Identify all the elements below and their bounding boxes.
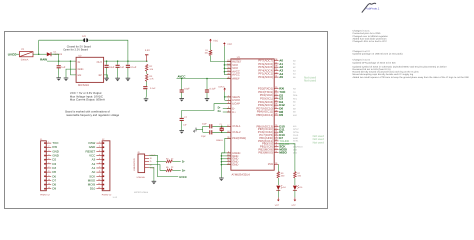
svg-text:31: 31 bbox=[275, 130, 277, 133]
svg-text:19: 19 bbox=[275, 93, 277, 96]
svg-text:5: 5 bbox=[99, 157, 100, 160]
ground for divider bbox=[144, 97, 149, 102]
ground for C11 bbox=[205, 97, 210, 102]
svg-text:21: 21 bbox=[275, 90, 277, 93]
solder jumper SJ1 bbox=[82, 35, 88, 42]
svg-text:TX: TX bbox=[293, 91, 296, 94]
svg-text:7: 7 bbox=[48, 165, 49, 168]
connector J2 net labels bbox=[86, 141, 96, 191]
pin comments group1 bbox=[293, 59, 296, 79]
svg-text:D+: D+ bbox=[182, 169, 186, 172]
svg-text:PINHD-12: PINHD-12 bbox=[40, 193, 50, 196]
junction at fuse/diode node bbox=[38, 53, 40, 55]
svg-text:4: 4 bbox=[99, 153, 100, 156]
svg-text:D4: D4 bbox=[283, 186, 287, 189]
svg-text:37: 37 bbox=[275, 61, 277, 64]
wire USB D- to R4 bbox=[157, 160, 166, 162]
capacitor C8 22pF bbox=[202, 123, 212, 129]
wire IC ground bus bbox=[221, 153, 231, 176]
svg-text:28: 28 bbox=[275, 109, 277, 112]
ground for IC bbox=[219, 176, 224, 181]
connector J1 net labels bbox=[52, 141, 59, 191]
svg-text:A5: A5 bbox=[293, 76, 296, 79]
svg-text:A6: A6 bbox=[293, 101, 296, 104]
svg-text:2: 2 bbox=[48, 145, 49, 148]
svg-text:1X12: 1X12 bbox=[113, 196, 117, 199]
fuse F1 bbox=[19, 48, 33, 62]
svg-text:Changes in v2.1:: Changes in v2.1: bbox=[353, 30, 371, 33]
svg-text:XTAL2: XTAL2 bbox=[232, 130, 241, 134]
svg-text:44: 44 bbox=[227, 72, 229, 75]
op-amp U1 ATMEGA32U4 body bbox=[231, 56, 274, 176]
svg-text:Updated package on USB micro B: Updated package on USB micro B (2 new pa… bbox=[353, 53, 403, 56]
svg-text:D+: D+ bbox=[232, 110, 236, 114]
svg-text:AREF: AREF bbox=[232, 76, 240, 80]
svg-text:42: 42 bbox=[227, 76, 229, 79]
svg-text:22: 22 bbox=[275, 162, 277, 165]
svg-text:A4: A4 bbox=[293, 73, 296, 76]
svg-text:A5: A5 bbox=[279, 75, 283, 79]
svg-text:A1: A1 bbox=[293, 63, 296, 66]
wire UVCC to fuse bbox=[16, 53, 20, 55]
svg-text:40: 40 bbox=[275, 71, 277, 74]
svg-text:11: 11 bbox=[48, 182, 50, 185]
svg-text:3: 3 bbox=[228, 106, 229, 109]
svg-text:17: 17 bbox=[227, 124, 229, 127]
svg-text:10: 10 bbox=[48, 178, 50, 181]
svg-text:OC1C: OC1C bbox=[293, 128, 299, 131]
svg-text:33: 33 bbox=[227, 136, 229, 139]
svg-text:VCC: VCC bbox=[291, 204, 296, 207]
wire USB GND bbox=[149, 168, 154, 180]
svg-text:PB3(MISO): PB3(MISO) bbox=[258, 150, 273, 154]
svg-text:Added fuse and diode protectio: Added fuse and diode protection bbox=[353, 37, 388, 40]
svg-text:Added two small squares of fil: Added two small squares of fill zone to … bbox=[353, 76, 470, 79]
wire TXLED branch bbox=[277, 164, 279, 171]
wire crystal left bus bbox=[203, 126, 210, 132]
svg-text:Moved decoupling caps directly: Moved decoupling caps directly beside ea… bbox=[353, 73, 414, 76]
svg-text:ATMEGA32U4: ATMEGA32U4 bbox=[232, 172, 251, 176]
svg-text:PINHD-12: PINHD-12 bbox=[102, 193, 112, 196]
wire LED to VCC 2 bbox=[294, 190, 296, 197]
svg-text:22: 22 bbox=[171, 157, 174, 160]
svg-text:MICRO-USB-B: MICRO-USB-B bbox=[134, 191, 149, 194]
svg-text:10: 10 bbox=[275, 147, 277, 150]
IC left pin stubs bbox=[227, 59, 231, 165]
svg-text:1: 1 bbox=[99, 141, 100, 144]
svg-text:29: 29 bbox=[275, 113, 277, 116]
svg-text:AIN0: AIN0 bbox=[293, 137, 298, 140]
svg-text:16: 16 bbox=[227, 130, 229, 133]
svg-text:15: 15 bbox=[227, 153, 229, 156]
wire D+ bbox=[223, 111, 231, 113]
connector J1 body bbox=[40, 138, 51, 196]
svg-text:D+: D+ bbox=[150, 163, 154, 166]
svg-text:C7: C7 bbox=[184, 116, 188, 119]
svg-text:4: 4 bbox=[228, 110, 229, 113]
svg-text:34: 34 bbox=[227, 66, 229, 69]
svg-text:0.1uF: 0.1uF bbox=[150, 87, 156, 90]
svg-text:D-: D- bbox=[150, 160, 153, 163]
svg-text:UVCC: UVCC bbox=[8, 53, 17, 57]
svg-text:Y1: Y1 bbox=[219, 123, 222, 126]
svg-text:26: 26 bbox=[275, 103, 277, 106]
connector J1 pin stubs bbox=[44, 141, 51, 190]
svg-text:Changed over to 500mA regulato: Changed over to 500mA regulator bbox=[353, 35, 389, 38]
wire BP pin bbox=[104, 75, 108, 78]
svg-text:A3: A3 bbox=[293, 69, 296, 72]
wire VCC output rail bbox=[104, 60, 147, 62]
capacitor C9 22pF bbox=[201, 130, 212, 138]
svg-text:GND: GND bbox=[232, 163, 238, 167]
wire R6 to LED bbox=[277, 178, 279, 185]
svg-text:27: 27 bbox=[275, 106, 277, 109]
capacitor C2 input 1uF bbox=[57, 61, 66, 76]
svg-text:SJ1: SJ1 bbox=[82, 35, 87, 38]
svg-text:A8: A8 bbox=[293, 107, 296, 110]
svg-text:10k: 10k bbox=[149, 68, 153, 71]
wire reset to IC bbox=[211, 56, 231, 62]
crystal Y1 16MHz bbox=[216, 123, 224, 142]
svg-text:A7: A7 bbox=[293, 104, 296, 107]
wire R7 to LED bbox=[294, 178, 296, 185]
svg-text:R3: R3 bbox=[149, 75, 153, 78]
svg-text:22pF: 22pF bbox=[202, 123, 208, 126]
connector J2 pin stubs bbox=[96, 141, 104, 190]
svg-text:9: 9 bbox=[99, 174, 100, 177]
svg-text:11: 11 bbox=[98, 182, 100, 185]
wire D- bbox=[223, 108, 231, 110]
svg-text:6: 6 bbox=[99, 161, 100, 164]
svg-text:R2: R2 bbox=[149, 65, 153, 68]
svg-text:R5: R5 bbox=[166, 166, 170, 169]
logo swoosh bbox=[362, 3, 376, 12]
LED D5 RX bbox=[293, 185, 303, 190]
IC left pin names group2 bbox=[232, 95, 240, 114]
svg-text:0.1uF: 0.1uF bbox=[130, 66, 136, 69]
svg-text:RX: RX bbox=[293, 88, 297, 91]
ground for C4 bbox=[115, 76, 120, 81]
svg-text:10uF: 10uF bbox=[109, 66, 115, 69]
wire RAW rail into regulator bbox=[47, 60, 76, 62]
svg-text:SDA: SDA bbox=[293, 94, 298, 97]
svg-text:A11: A11 bbox=[293, 125, 297, 128]
wire jumper rail top bbox=[39, 39, 83, 41]
svg-text:VCC: VCC bbox=[213, 39, 218, 42]
svg-text:2: 2 bbox=[228, 98, 229, 101]
svg-text:3: 3 bbox=[48, 149, 49, 152]
svg-text:30: 30 bbox=[275, 124, 277, 127]
svg-text:4.7k: 4.7k bbox=[149, 78, 154, 81]
svg-text:EN: EN bbox=[78, 74, 82, 77]
svg-text:D+: D+ bbox=[218, 110, 222, 113]
svg-text:14: 14 bbox=[227, 62, 229, 65]
svg-text:38: 38 bbox=[275, 65, 277, 68]
svg-text:20: 20 bbox=[275, 86, 277, 89]
svg-text:PD5: PD5 bbox=[268, 162, 274, 166]
power flag VCC down TX bbox=[275, 197, 280, 207]
svg-text:3.3V: 3.3V bbox=[145, 49, 150, 52]
svg-text:41: 41 bbox=[275, 75, 277, 78]
junction rail C3 bbox=[106, 60, 108, 62]
svg-text:24: 24 bbox=[227, 69, 229, 72]
pin comments group3 bbox=[293, 125, 303, 154]
junction rail C4 bbox=[117, 60, 119, 62]
svg-text:1: 1 bbox=[48, 141, 49, 144]
resistor R7 330 bbox=[294, 172, 302, 179]
svg-text:10uF: 10uF bbox=[184, 88, 190, 91]
wire USB VBUS to UVCC bbox=[149, 155, 178, 176]
svg-text:8: 8 bbox=[99, 170, 100, 173]
svg-text:35: 35 bbox=[227, 159, 229, 162]
svg-text:6: 6 bbox=[228, 101, 229, 104]
svg-text:PB5(ADC12): PB5(ADC12) bbox=[256, 113, 273, 117]
junction rail jumper bbox=[127, 60, 128, 62]
svg-text:D14: D14 bbox=[293, 151, 298, 154]
wire jumper rail riser bbox=[38, 40, 40, 54]
svg-text:PF0(ADC0): PF0(ADC0) bbox=[258, 75, 273, 79]
svg-text:7: 7 bbox=[99, 165, 100, 168]
svg-text:43: 43 bbox=[227, 162, 229, 165]
wire XTAL2 bbox=[212, 131, 231, 133]
svg-text:UVCC: UVCC bbox=[218, 85, 225, 88]
svg-text:BP: BP bbox=[99, 74, 103, 77]
svg-text:USB-MB: USB-MB bbox=[137, 176, 146, 179]
svg-text:12: 12 bbox=[48, 186, 50, 189]
IC right pin stubs group2 bbox=[274, 86, 278, 115]
svg-text:12: 12 bbox=[98, 186, 100, 189]
svg-text:MISO: MISO bbox=[279, 151, 287, 155]
svg-text:OUT: OUT bbox=[97, 61, 103, 64]
power flag VCC for reset pullup bbox=[209, 39, 218, 43]
power flag VCC feed bbox=[223, 42, 232, 46]
svg-text:330: 330 bbox=[281, 174, 285, 177]
regulator U2 MIC5219 bbox=[76, 54, 104, 87]
svg-text:VBUS: VBUS bbox=[150, 154, 156, 157]
IC right pin names group2 bbox=[256, 87, 273, 117]
capacitor C3 10uF bbox=[105, 61, 115, 76]
note not used group3 bbox=[313, 134, 325, 145]
svg-text:6: 6 bbox=[48, 161, 49, 164]
wire EN tie to input rail bbox=[71, 61, 77, 75]
wire VBUS/UVCC bbox=[224, 92, 231, 101]
connector J3 USB micro bbox=[133, 151, 145, 179]
svg-text:MBR120: MBR120 bbox=[54, 53, 63, 56]
svg-text:RAW: RAW bbox=[40, 58, 47, 62]
svg-text:22: 22 bbox=[171, 166, 174, 169]
svg-text:10k: 10k bbox=[205, 52, 209, 55]
svg-text:IN: IN bbox=[78, 61, 81, 64]
IC right pin names group1 bbox=[258, 59, 273, 80]
ground for C7 bbox=[179, 129, 184, 134]
junction input cap node bbox=[58, 60, 60, 62]
svg-text:330: 330 bbox=[297, 174, 301, 177]
svg-text:VCC: VCC bbox=[227, 43, 232, 46]
svg-text:A0: A0 bbox=[293, 59, 296, 62]
svg-text:25: 25 bbox=[275, 99, 277, 102]
svg-text:XTAL1: XTAL1 bbox=[232, 124, 241, 128]
svg-text:Not used: Not used bbox=[313, 140, 325, 144]
resistor R5 22 bbox=[166, 166, 174, 171]
ground for C5 bbox=[126, 76, 131, 81]
svg-text:Not used: Not used bbox=[304, 79, 316, 83]
ground for C3 bbox=[104, 76, 109, 81]
svg-text:F1: F1 bbox=[22, 48, 25, 51]
svg-text:5: 5 bbox=[48, 157, 49, 160]
note regulator limits bbox=[70, 91, 105, 102]
wire XTAL1 bbox=[212, 125, 231, 127]
svg-text:12: 12 bbox=[275, 127, 277, 130]
svg-text:Changes in v2.2:: Changes in v2.2: bbox=[353, 50, 371, 53]
svg-text:16MHz: 16MHz bbox=[216, 139, 223, 142]
ground for crystal bbox=[193, 128, 203, 133]
svg-text:GND: GND bbox=[78, 68, 84, 71]
svg-text:1uF: 1uF bbox=[183, 124, 187, 127]
svg-text:Changed LEDs to be tied to VCC: Changed LEDs to be tied to VCC bbox=[353, 40, 388, 43]
svg-text:22: 22 bbox=[275, 138, 277, 141]
svg-text:36: 36 bbox=[275, 58, 277, 61]
net labels group3 bbox=[279, 124, 290, 154]
svg-text:23: 23 bbox=[227, 156, 229, 159]
svg-text:7: 7 bbox=[228, 94, 229, 97]
svg-text:Connected pins 4x to GND: Connected pins 4x to GND bbox=[353, 32, 381, 35]
svg-text:8: 8 bbox=[48, 170, 49, 173]
svg-text:VCC: VCC bbox=[275, 204, 280, 207]
power flag UVCC bbox=[218, 85, 226, 91]
svg-text:D15/SCLK: D15/SCLK bbox=[293, 146, 303, 149]
svg-text:A2: A2 bbox=[293, 66, 296, 69]
resistor R3 divider bottom bbox=[145, 71, 154, 81]
wire R4 to D- label bbox=[173, 160, 181, 162]
svg-text:500mA: 500mA bbox=[21, 59, 29, 62]
IC right pin stubs group1 bbox=[274, 58, 278, 78]
wire R5 to D+ label bbox=[173, 169, 181, 171]
net labels group1 bbox=[279, 59, 283, 80]
wire UCAP bbox=[182, 104, 231, 118]
wire USB D+ to R5 bbox=[149, 165, 166, 171]
svg-text:Open for 3.3V Board: Open for 3.3V Board bbox=[63, 49, 88, 52]
wire LED to VCC bbox=[277, 190, 279, 197]
capacitor C10 10uF bbox=[180, 79, 191, 97]
svg-text:18: 18 bbox=[275, 96, 277, 99]
svg-text:A9: A9 bbox=[293, 111, 296, 114]
diode D1 MBR120 bbox=[47, 50, 63, 56]
svg-text:1uF: 1uF bbox=[61, 66, 66, 69]
svg-text:3: 3 bbox=[99, 149, 100, 152]
junction rail divider bbox=[146, 60, 148, 62]
wire VCC feed bus bbox=[224, 46, 231, 74]
IC left pin names group4 bbox=[232, 151, 240, 167]
changelog notes bbox=[353, 30, 470, 79]
svg-text:8: 8 bbox=[276, 141, 277, 144]
pin comments group2 bbox=[293, 88, 298, 117]
svg-text:XCK1: XCK1 bbox=[293, 140, 299, 143]
svg-text:J3: J3 bbox=[137, 151, 140, 154]
IC left pin names group1 bbox=[232, 59, 242, 80]
capacitor C6 divider bbox=[143, 81, 156, 96]
svg-text:Changes in v2.3:: Changes in v2.3: bbox=[353, 59, 371, 62]
power flag VCC down RX bbox=[291, 197, 296, 207]
svg-text:ID: ID bbox=[150, 157, 153, 160]
IC pin PD5 TXLED bbox=[268, 162, 279, 166]
svg-text:D10: D10 bbox=[90, 187, 96, 191]
svg-text:D9: D9 bbox=[279, 113, 283, 117]
resistor R1 10k reset pullup bbox=[205, 43, 212, 56]
wire fuse to junction bbox=[33, 53, 47, 55]
resistor R2 divider top bbox=[145, 64, 153, 71]
svg-text:10: 10 bbox=[98, 178, 100, 181]
svg-text:SCL: SCL bbox=[293, 97, 298, 100]
IC right pin stubs group3 bbox=[274, 124, 278, 153]
net labels group2 bbox=[279, 87, 286, 117]
svg-text:D5: D5 bbox=[300, 186, 304, 189]
svg-text:OC3A: OC3A bbox=[293, 131, 299, 134]
USB pin stubs bbox=[145, 154, 156, 169]
svg-text:13: 13 bbox=[227, 59, 229, 62]
svg-text:UVCC: UVCC bbox=[179, 176, 187, 179]
wire PE2/HWB to ground bus bbox=[221, 138, 231, 153]
note board marking bbox=[65, 111, 119, 118]
svg-text:1: 1 bbox=[276, 136, 277, 139]
power flag 3.3V bbox=[145, 49, 150, 61]
ground for USB bbox=[152, 179, 157, 184]
svg-text:USB-MICRO: USB-MICRO bbox=[133, 158, 136, 171]
wire RXLED branch bbox=[279, 143, 295, 145]
svg-text:9: 9 bbox=[276, 144, 277, 147]
svg-text:CLK0: CLK0 bbox=[293, 134, 299, 137]
wire regulator GND pin bbox=[66, 69, 76, 76]
wire AVCC bbox=[177, 78, 231, 80]
IC left pin names group3 bbox=[232, 124, 246, 140]
svg-text:0.1uF: 0.1uF bbox=[210, 88, 216, 91]
svg-text:Max Current Output: 500mA: Max Current Output: 500mA bbox=[70, 98, 105, 102]
svg-text:D9: D9 bbox=[52, 187, 56, 191]
svg-text:39: 39 bbox=[275, 68, 277, 71]
capacitor C5 0.1uF bbox=[126, 61, 137, 76]
sheet frame bbox=[5, 32, 328, 209]
svg-text:A10: A10 bbox=[293, 114, 298, 117]
connector J2 body bbox=[102, 138, 117, 199]
ground for C10 bbox=[179, 97, 184, 102]
svg-text:2: 2 bbox=[99, 145, 100, 148]
svg-text:FabProto.1: FabProto.1 bbox=[366, 7, 380, 11]
svg-text:22pF: 22pF bbox=[201, 135, 207, 138]
svg-text:PE2(HWB): PE2(HWB) bbox=[232, 136, 246, 140]
svg-text:D-: D- bbox=[182, 160, 185, 163]
IC right pin names group3 bbox=[256, 124, 273, 154]
svg-text:5: 5 bbox=[228, 150, 229, 153]
capacitor C7 1uF UCAP bbox=[180, 116, 188, 129]
svg-text:UCAP: UCAP bbox=[232, 102, 240, 106]
note not used PF1/PF0 bbox=[304, 75, 316, 82]
LED D4 TX bbox=[276, 185, 286, 190]
svg-text:1uF: 1uF bbox=[120, 66, 125, 69]
ground for regulator bbox=[64, 76, 69, 81]
svg-text:11: 11 bbox=[275, 150, 277, 153]
wire diode to RAW rail jog bbox=[51, 54, 59, 61]
ground for C2 bbox=[56, 76, 61, 81]
capacitor C4 1uF bbox=[116, 61, 125, 76]
svg-text:9: 9 bbox=[48, 174, 49, 177]
svg-text:D16: D16 bbox=[293, 148, 298, 151]
wire jumper rail to VCC rail bbox=[89, 40, 128, 61]
resistor R4 22 bbox=[166, 157, 174, 162]
svg-text:32: 32 bbox=[275, 133, 277, 136]
svg-text:MIC5219: MIC5219 bbox=[78, 84, 89, 87]
svg-text:4: 4 bbox=[48, 153, 49, 156]
svg-text:Updated symbol of 32U4 in sche: Updated symbol of 32U4 in schematic (swi… bbox=[353, 66, 448, 69]
svg-text:Updated DFN package of 32U4 to: Updated DFN package of 32U4 to be 5x5 bbox=[353, 61, 397, 64]
